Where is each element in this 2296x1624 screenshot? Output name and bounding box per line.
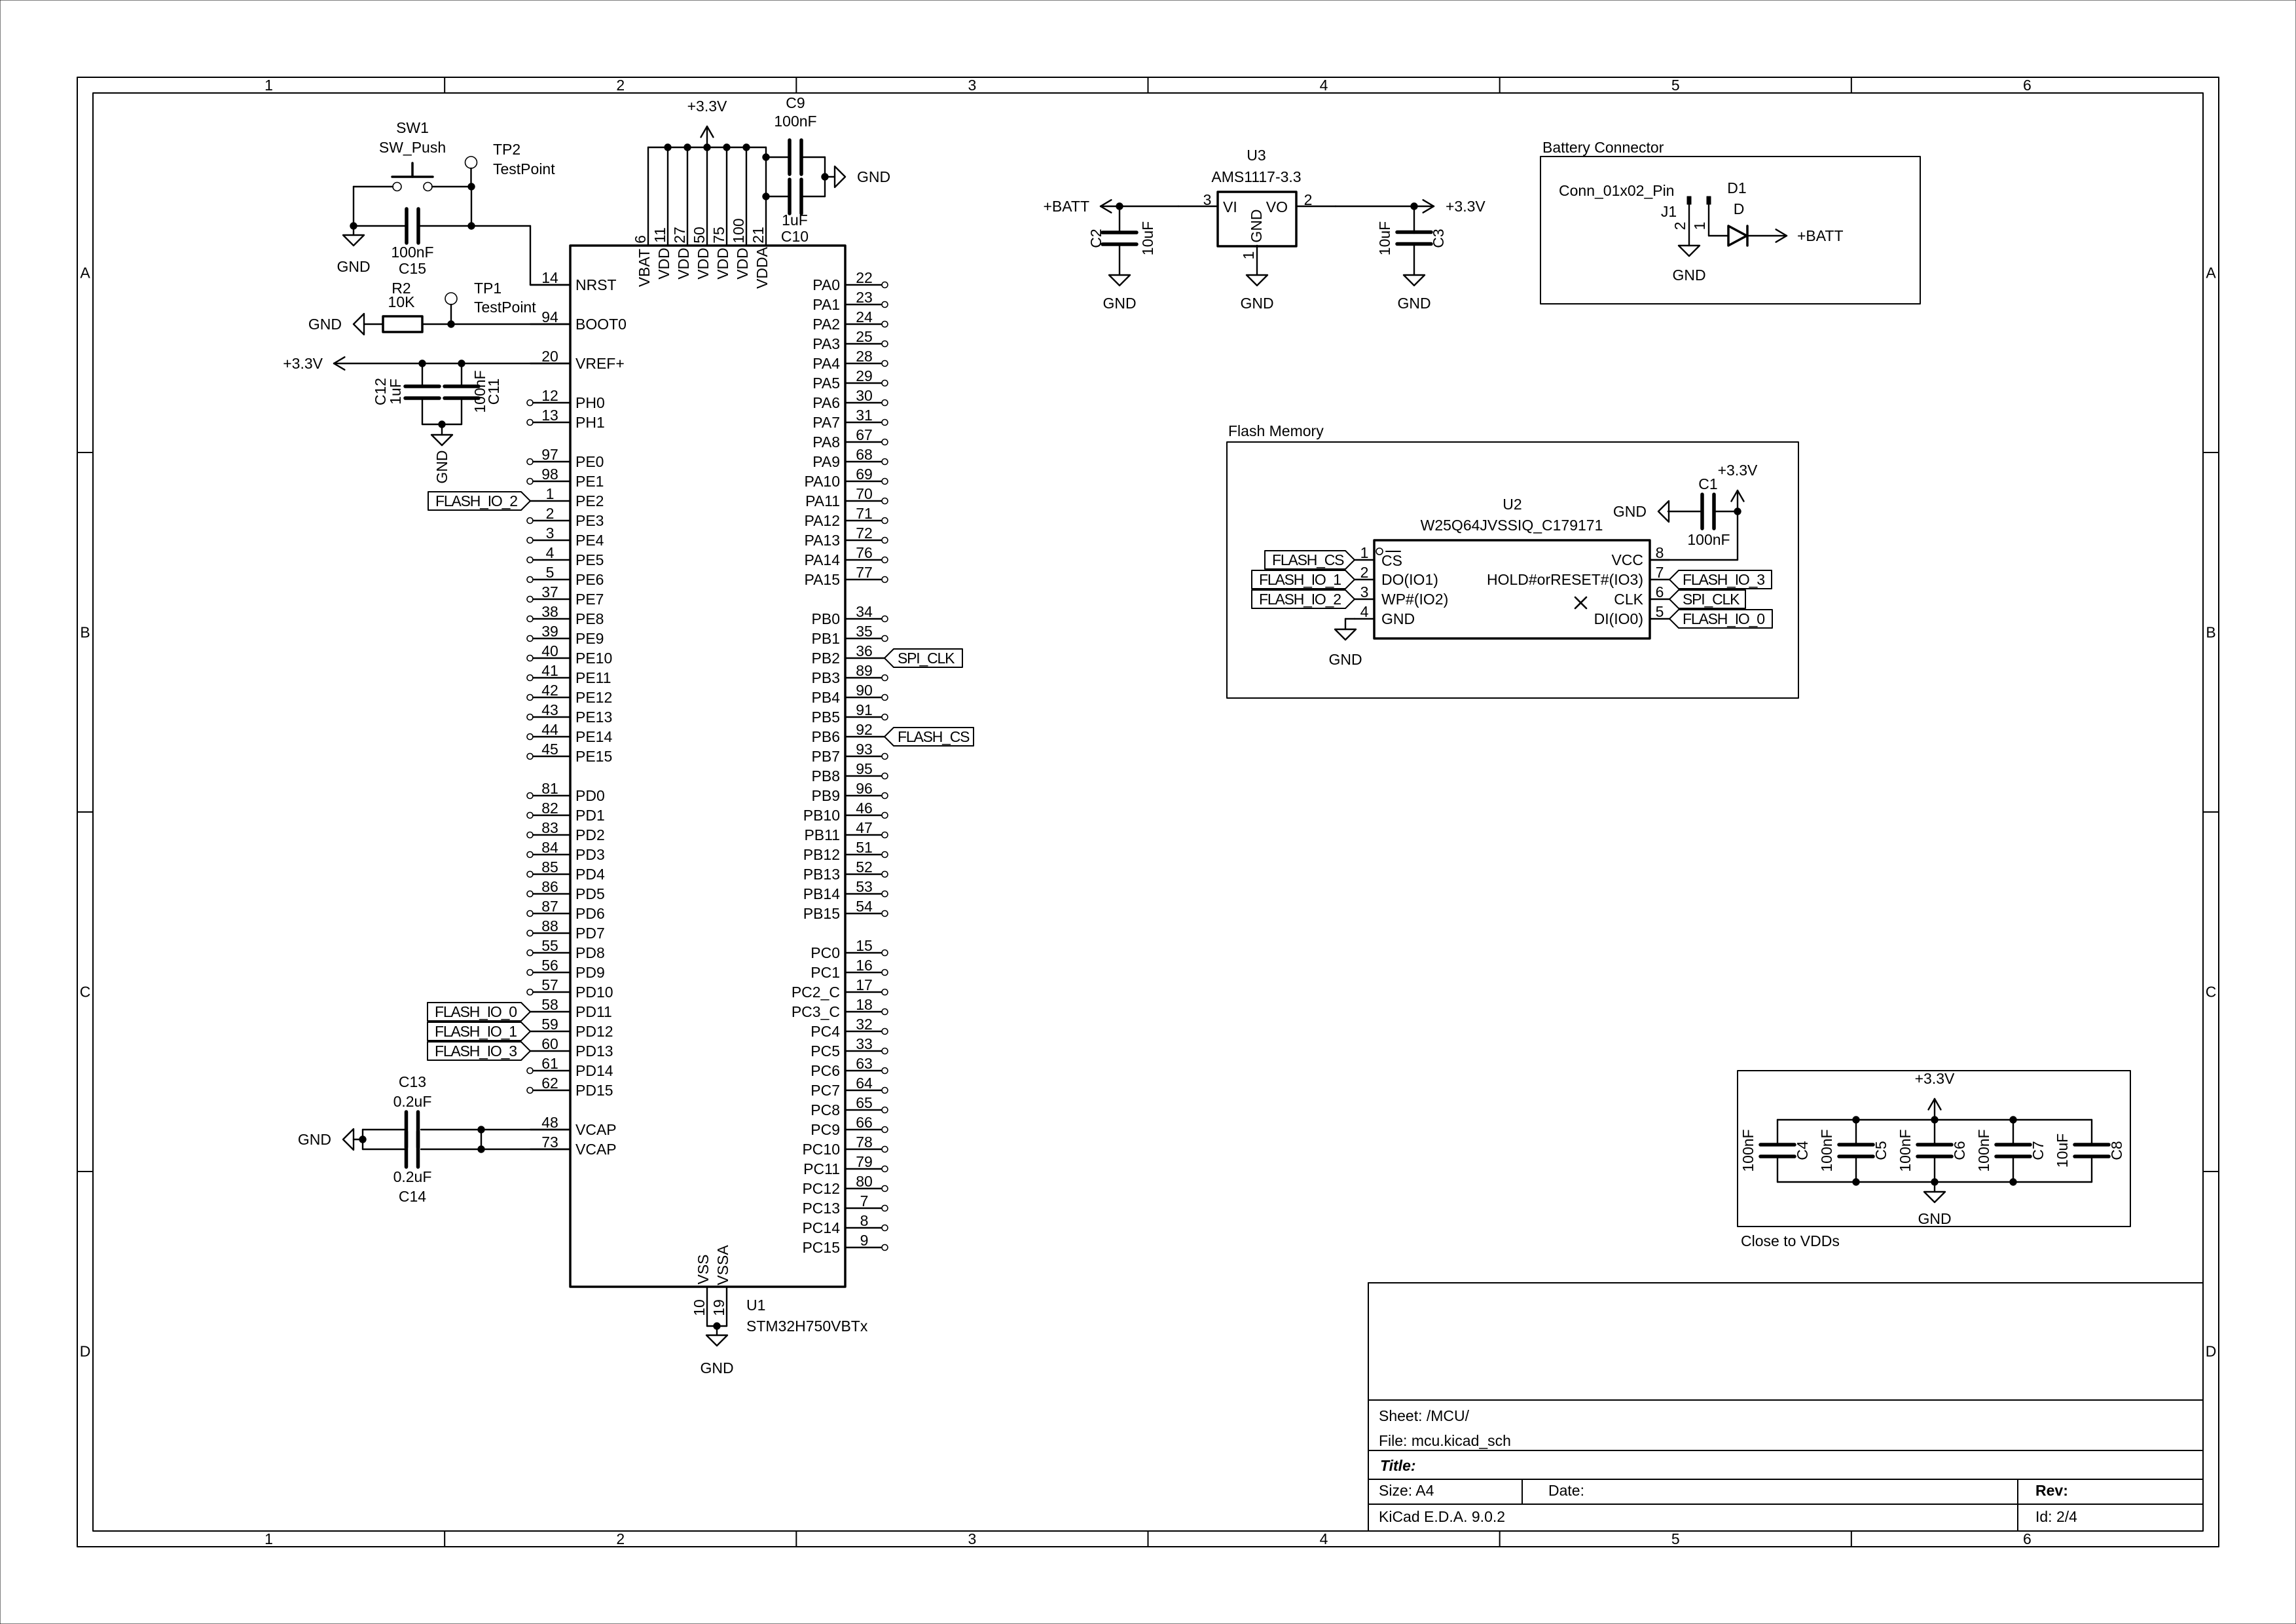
svg-text:PA3: PA3 xyxy=(812,335,840,352)
svg-text:PA7: PA7 xyxy=(812,414,840,431)
ground xyxy=(1679,246,1700,256)
U1 pin 3 PE4 xyxy=(533,540,570,541)
hierarchical label FLASH_CS xyxy=(884,728,974,746)
wire VSS/VSSA join xyxy=(707,1325,727,1327)
svg-text:12: 12 xyxy=(541,387,558,404)
svg-text:90: 90 xyxy=(856,682,873,699)
resistor R2 10K xyxy=(383,316,422,332)
svg-text:1: 1 xyxy=(546,485,555,502)
U1 pin 63 PC6 xyxy=(845,1070,881,1071)
power +3.3V (VREF) xyxy=(334,363,570,364)
svg-text:+BATT: +BATT xyxy=(1043,198,1089,215)
U2 pin 7 HOLD xyxy=(1650,579,1669,580)
svg-text:68: 68 xyxy=(856,446,873,463)
capacitor C15 xyxy=(405,209,409,243)
U1 pin 95 PB8 xyxy=(845,775,881,777)
svg-text:3: 3 xyxy=(968,1530,977,1547)
svg-text:GND: GND xyxy=(337,258,370,275)
hierarchical label FLASH_IO_2 xyxy=(1252,590,1355,608)
svg-text:Flash Memory: Flash Memory xyxy=(1228,422,1324,439)
svg-text:VO: VO xyxy=(1266,198,1288,215)
capacitor C7 xyxy=(1996,1143,2030,1147)
svg-text:1: 1 xyxy=(264,1530,273,1547)
svg-text:4: 4 xyxy=(1320,77,1328,94)
U1 pin 39 PE9 xyxy=(533,638,570,639)
svg-text:69: 69 xyxy=(856,466,873,483)
U1 pin 17 PC2_C xyxy=(845,991,881,993)
U1 pin 83 PD2 xyxy=(533,834,570,836)
capacitor C1 xyxy=(1700,494,1704,528)
U1 pin 27 VDD xyxy=(687,147,688,246)
svg-text:8: 8 xyxy=(1656,544,1664,561)
svg-text:TP1: TP1 xyxy=(474,280,501,297)
svg-text:93: 93 xyxy=(856,741,873,758)
diode D1 xyxy=(1728,226,1747,246)
U1 pin 72 PA13 xyxy=(845,540,881,541)
svg-text:PB8: PB8 xyxy=(812,767,840,784)
svg-text:38: 38 xyxy=(541,603,558,620)
VDD cap rails xyxy=(1777,1119,2092,1120)
svg-text:SPI_CLK: SPI_CLK xyxy=(1683,591,1740,608)
svg-text:+3.3V: +3.3V xyxy=(1446,198,1485,215)
svg-text:PB15: PB15 xyxy=(803,905,840,922)
svg-text:2: 2 xyxy=(616,77,625,94)
svg-text:2: 2 xyxy=(546,505,555,522)
ground xyxy=(1658,501,1669,522)
ground xyxy=(441,424,443,435)
svg-text:PA15: PA15 xyxy=(804,571,840,588)
capacitor C11 xyxy=(445,384,479,388)
capacitor C8 xyxy=(2075,1143,2109,1147)
svg-text:46: 46 xyxy=(856,800,873,817)
svg-text:PB10: PB10 xyxy=(803,807,840,824)
title block xyxy=(1368,1282,2202,1283)
svg-text:B: B xyxy=(2206,624,2215,641)
svg-text:58: 58 xyxy=(541,996,558,1013)
svg-text:97: 97 xyxy=(541,446,558,463)
hierarchical label SPI_CLK xyxy=(884,649,962,667)
svg-text:60: 60 xyxy=(541,1035,558,1052)
svg-text:66: 66 xyxy=(856,1114,873,1131)
svg-text:15: 15 xyxy=(856,937,873,954)
U1 pin 66 PC9 xyxy=(845,1129,881,1130)
svg-text:14: 14 xyxy=(541,269,558,286)
svg-text:PA8: PA8 xyxy=(812,434,840,451)
svg-text:C3: C3 xyxy=(1430,229,1447,248)
svg-text:SW_Push: SW_Push xyxy=(379,139,446,156)
svg-text:PD10: PD10 xyxy=(575,984,613,1001)
U1 pin 48 VCAP xyxy=(530,1129,570,1130)
svg-text:+3.3V: +3.3V xyxy=(1718,462,1758,479)
svg-text:SPI_CLK: SPI_CLK xyxy=(898,650,955,667)
svg-text:GND: GND xyxy=(700,1359,733,1376)
svg-text:FLASH_IO_3: FLASH_IO_3 xyxy=(435,1043,517,1060)
U1 pin 59 PD12 xyxy=(530,1031,570,1032)
svg-text:GND: GND xyxy=(433,450,450,483)
svg-text:FLASH_IO_0: FLASH_IO_0 xyxy=(435,1003,517,1020)
wire VCAP 48 xyxy=(421,1129,570,1130)
svg-text:SW1: SW1 xyxy=(396,119,429,136)
svg-text:VDD: VDD xyxy=(695,248,712,280)
capacitor C14 xyxy=(405,1132,409,1167)
svg-text:53: 53 xyxy=(856,878,873,895)
U1 pin 44 PE14 xyxy=(533,736,570,737)
U1 pin 97 PE0 xyxy=(533,461,570,462)
svg-text:PH0: PH0 xyxy=(575,394,605,411)
svg-text:PC6: PC6 xyxy=(811,1062,840,1079)
U1 pin 56 PD9 xyxy=(533,972,570,973)
svg-text:A: A xyxy=(2206,265,2216,282)
svg-text:Close to VDDs: Close to VDDs xyxy=(1741,1232,1840,1249)
svg-text:VI: VI xyxy=(1223,198,1237,215)
svg-text:47: 47 xyxy=(856,819,873,836)
U1 pin 79 PC11 xyxy=(845,1168,881,1170)
hierarchical label SPI_CLK xyxy=(1669,590,1745,608)
svg-text:73: 73 xyxy=(541,1134,558,1151)
capacitor C12 xyxy=(405,384,439,388)
svg-text:VDD: VDD xyxy=(675,248,692,280)
svg-text:PA1: PA1 xyxy=(812,296,840,313)
svg-text:PH1: PH1 xyxy=(575,414,605,431)
U1 pin 58 PD11 xyxy=(530,1011,570,1012)
svg-text:29: 29 xyxy=(856,367,873,384)
svg-text:100nF: 100nF xyxy=(391,244,433,261)
ground xyxy=(1404,275,1425,286)
svg-text:2: 2 xyxy=(1360,564,1369,581)
svg-text:65: 65 xyxy=(856,1094,873,1111)
wire TP2 to C15 xyxy=(471,187,472,226)
svg-text:Title:: Title: xyxy=(1380,1457,1416,1474)
svg-text:100nF: 100nF xyxy=(1740,1129,1757,1172)
svg-text:WP#(IO2): WP#(IO2) xyxy=(1381,591,1448,608)
svg-text:D: D xyxy=(80,1343,91,1360)
svg-text:33: 33 xyxy=(856,1035,873,1052)
svg-text:BOOT0: BOOT0 xyxy=(575,316,627,333)
svg-text:40: 40 xyxy=(541,642,558,659)
svg-text:PC12: PC12 xyxy=(802,1180,840,1197)
svg-text:PC2_C: PC2_C xyxy=(792,984,840,1001)
svg-text:U1: U1 xyxy=(746,1297,765,1314)
svg-text:54: 54 xyxy=(856,898,873,915)
svg-text:PB14: PB14 xyxy=(803,885,840,902)
U1 pin 98 PE1 xyxy=(533,481,570,482)
svg-text:C14: C14 xyxy=(399,1188,426,1205)
svg-text:PC11: PC11 xyxy=(803,1160,840,1177)
capacitor C9 xyxy=(788,140,792,174)
svg-text:8: 8 xyxy=(860,1212,869,1229)
svg-text:File: mcu.kicad_sch: File: mcu.kicad_sch xyxy=(1379,1432,1511,1449)
svg-text:100: 100 xyxy=(730,218,747,243)
U1 pin 42 PE12 xyxy=(533,697,570,698)
svg-text:82: 82 xyxy=(541,800,558,817)
svg-text:PD3: PD3 xyxy=(575,846,605,863)
U1 pin 24 PA2 xyxy=(845,323,881,325)
svg-text:13: 13 xyxy=(541,407,558,424)
svg-text:PD4: PD4 xyxy=(575,866,605,883)
svg-text:PB2: PB2 xyxy=(812,650,840,667)
svg-text:D: D xyxy=(2206,1343,2217,1360)
svg-text:PA4: PA4 xyxy=(812,355,840,372)
svg-text:PD14: PD14 xyxy=(575,1062,613,1079)
U2 pin 1 CS xyxy=(1355,559,1374,561)
svg-text:63: 63 xyxy=(856,1055,873,1072)
svg-text:PE3: PE3 xyxy=(575,512,604,529)
svg-text:10uF: 10uF xyxy=(2054,1134,2071,1168)
svg-text:43: 43 xyxy=(541,701,558,718)
svg-text:28: 28 xyxy=(856,348,873,365)
U1 pin 73 VCAP xyxy=(530,1149,570,1150)
U1 pin 31 PA7 xyxy=(845,422,881,423)
svg-text:61: 61 xyxy=(541,1055,558,1072)
svg-text:PA5: PA5 xyxy=(812,375,840,392)
svg-text:PD13: PD13 xyxy=(575,1043,613,1060)
svg-text:GND: GND xyxy=(1381,610,1415,627)
svg-text:77: 77 xyxy=(856,564,873,581)
svg-text:GND: GND xyxy=(308,316,342,333)
svg-text:VBAT: VBAT xyxy=(636,249,653,287)
U1 pin 35 PB1 xyxy=(845,638,881,639)
svg-text:PE12: PE12 xyxy=(575,689,612,706)
svg-text:Size: A4: Size: A4 xyxy=(1379,1482,1434,1499)
svg-text:PE14: PE14 xyxy=(575,728,612,745)
U1 pin 81 PD0 xyxy=(533,795,570,796)
U2 pin 2 DO xyxy=(1355,579,1374,580)
U1 pin 21 VDDA xyxy=(765,147,767,246)
svg-text:80: 80 xyxy=(856,1173,873,1190)
U1 pin 32 PC4 xyxy=(845,1031,881,1032)
svg-text:100nF: 100nF xyxy=(1687,531,1730,548)
svg-text:TestPoint: TestPoint xyxy=(474,299,536,316)
wire J1 to D1 xyxy=(1709,235,1728,236)
svg-text:1uF: 1uF xyxy=(782,212,808,229)
svg-text:86: 86 xyxy=(541,878,558,895)
U1 pin 82 PD1 xyxy=(533,815,570,816)
svg-text:PA9: PA9 xyxy=(812,453,840,470)
svg-text:0.2uF: 0.2uF xyxy=(393,1093,432,1110)
svg-text:89: 89 xyxy=(856,662,873,679)
U1 pin 43 PE13 xyxy=(533,716,570,718)
ground xyxy=(354,314,364,335)
svg-text:4: 4 xyxy=(546,544,555,561)
MCU U1 STM32H750VBTx body xyxy=(570,246,845,1287)
svg-text:2: 2 xyxy=(616,1530,625,1547)
svg-text:20: 20 xyxy=(541,348,558,365)
svg-text:C6: C6 xyxy=(1951,1141,1968,1160)
U1 pin 12 PH0 xyxy=(533,402,570,403)
U2 pin 3 WP xyxy=(1355,599,1374,600)
svg-text:6: 6 xyxy=(1656,583,1664,600)
svg-text:PC14: PC14 xyxy=(802,1219,840,1236)
svg-text:PD9: PD9 xyxy=(575,964,605,981)
svg-text:D: D xyxy=(1734,200,1745,217)
svg-text:PB1: PB1 xyxy=(812,630,840,647)
svg-text:1: 1 xyxy=(1360,544,1369,561)
svg-text:7: 7 xyxy=(860,1192,869,1209)
svg-text:J1: J1 xyxy=(1661,203,1677,220)
U3 pin 2 VO xyxy=(1296,206,1336,207)
svg-text:+3.3V: +3.3V xyxy=(1915,1070,1955,1087)
svg-text:GND: GND xyxy=(1328,651,1362,668)
wire C13/C14 left join xyxy=(363,1129,405,1130)
wire SW1 left xyxy=(354,186,393,187)
svg-text:84: 84 xyxy=(541,839,558,856)
U1 pin 91 PB5 xyxy=(845,716,881,718)
svg-text:87: 87 xyxy=(541,898,558,915)
svg-text:PD5: PD5 xyxy=(575,885,605,902)
hierarchical label FLASH_IO_3 xyxy=(428,1042,530,1060)
U1 pin 54 PB15 xyxy=(845,913,881,914)
U1 pin 78 PC10 xyxy=(845,1149,881,1150)
U1 pin 20 VREF+ xyxy=(530,363,570,364)
svg-text:TestPoint: TestPoint xyxy=(493,160,555,177)
svg-text:76: 76 xyxy=(856,544,873,561)
svg-text:VDDA: VDDA xyxy=(754,246,771,289)
flash U2 W25Q64JVSSIQ body xyxy=(1374,540,1650,638)
svg-text:Sheet: /MCU/: Sheet: /MCU/ xyxy=(1379,1407,1470,1424)
svg-text:FLASH_IO_2: FLASH_IO_2 xyxy=(435,492,517,509)
wire VCAP link xyxy=(481,1130,482,1149)
svg-text:83: 83 xyxy=(541,819,558,836)
svg-text:57: 57 xyxy=(541,976,558,993)
wire SW1 right xyxy=(432,186,471,187)
svg-text:44: 44 xyxy=(541,721,558,738)
U1 pin 53 PB14 xyxy=(845,893,881,895)
svg-text:88: 88 xyxy=(541,917,558,934)
U1 pin 8 PC14 xyxy=(845,1227,881,1228)
group box Flash Memory xyxy=(1227,442,1798,698)
svg-text:C5: C5 xyxy=(1872,1141,1889,1160)
regulator U3 AMS1117-3.3 xyxy=(1218,192,1296,246)
ground xyxy=(1335,629,1356,640)
svg-text:PA0: PA0 xyxy=(812,276,840,293)
svg-text:36: 36 xyxy=(856,642,873,659)
svg-text:U2: U2 xyxy=(1503,496,1522,513)
ground xyxy=(343,1129,354,1150)
wire GND to R2 xyxy=(364,323,383,325)
switch SW1 SW_Push xyxy=(393,183,401,191)
svg-text:PB12: PB12 xyxy=(803,846,840,863)
svg-text:GND: GND xyxy=(1240,295,1273,312)
svg-text:34: 34 xyxy=(856,603,873,620)
U1 pin 75 VDD xyxy=(726,147,727,246)
svg-text:GND: GND xyxy=(298,1131,331,1148)
ground xyxy=(706,1335,727,1346)
svg-text:PC7: PC7 xyxy=(811,1082,840,1099)
svg-text:DI(IO0): DI(IO0) xyxy=(1594,610,1643,627)
svg-text:Rev:: Rev: xyxy=(2035,1482,2068,1499)
U1 pin 34 PB0 xyxy=(845,618,881,619)
svg-text:7: 7 xyxy=(1656,564,1664,581)
svg-text:FLASH_IO_1: FLASH_IO_1 xyxy=(1259,571,1341,588)
wire C9/C10 right join xyxy=(824,157,826,196)
svg-text:1uF: 1uF xyxy=(387,378,404,405)
capacitor C4 xyxy=(1760,1143,1795,1147)
svg-text:11: 11 xyxy=(651,227,668,243)
svg-text:U3: U3 xyxy=(1247,147,1266,164)
U1 pin 93 PB7 xyxy=(845,756,881,757)
svg-text:DO(IO1): DO(IO1) xyxy=(1381,571,1438,588)
U1 pin 55 PD8 xyxy=(533,952,570,953)
svg-text:VREF+: VREF+ xyxy=(575,355,625,372)
svg-text:PE4: PE4 xyxy=(575,532,604,549)
U1 pin 88 PD7 xyxy=(533,932,570,934)
svg-text:KiCad E.D.A. 9.0.2: KiCad E.D.A. 9.0.2 xyxy=(1379,1508,1505,1525)
U1 pin 36 PB2 xyxy=(845,657,884,659)
U1 pin 71 PA12 xyxy=(845,520,881,521)
U1 pin 85 PD4 xyxy=(533,874,570,875)
svg-text:42: 42 xyxy=(541,682,558,699)
svg-text:70: 70 xyxy=(856,485,873,502)
svg-text:NRST: NRST xyxy=(575,276,617,293)
svg-text:4: 4 xyxy=(1360,603,1369,620)
U1 pin 60 PD13 xyxy=(530,1050,570,1052)
svg-text:CLK: CLK xyxy=(1614,591,1643,608)
svg-text:CS: CS xyxy=(1381,552,1402,569)
U2 pin 5 DI xyxy=(1650,618,1669,619)
wire VCC to C1 xyxy=(1650,559,1738,561)
svg-text:PB5: PB5 xyxy=(812,709,840,726)
svg-text:TP2: TP2 xyxy=(493,141,520,158)
svg-text:PB11: PB11 xyxy=(804,826,840,843)
hierarchical label FLASH_CS xyxy=(1265,551,1355,569)
svg-text:D1: D1 xyxy=(1727,179,1746,196)
svg-text:PC4: PC4 xyxy=(811,1023,840,1040)
U1 pin 29 PA5 xyxy=(845,382,881,384)
U1 pin 46 PB10 xyxy=(845,815,881,816)
svg-text:+3.3V: +3.3V xyxy=(687,98,727,115)
svg-text:17: 17 xyxy=(856,976,873,993)
power +BATT (diode out) xyxy=(1747,235,1787,236)
svg-text:FLASH_CS: FLASH_CS xyxy=(1272,551,1344,568)
U1 pin 77 PA15 xyxy=(845,579,881,580)
svg-text:FLASH_IO_1: FLASH_IO_1 xyxy=(435,1023,517,1040)
ground xyxy=(343,235,364,246)
svg-text:5: 5 xyxy=(1656,603,1664,620)
U1 pin 47 PB11 xyxy=(845,834,881,836)
svg-text:PE9: PE9 xyxy=(575,630,604,647)
svg-text:PD0: PD0 xyxy=(575,787,605,804)
svg-text:C13: C13 xyxy=(399,1073,426,1090)
U1 pin 67 PA8 xyxy=(845,441,881,443)
svg-text:VCAP: VCAP xyxy=(575,1141,617,1158)
hierarchical label FLASH_IO_2 xyxy=(428,492,530,510)
svg-text:19: 19 xyxy=(710,1299,727,1316)
svg-text:Battery Connector: Battery Connector xyxy=(1542,139,1664,156)
svg-text:PA12: PA12 xyxy=(804,512,840,529)
svg-text:96: 96 xyxy=(856,780,873,797)
J1 pin 2 xyxy=(1687,196,1691,204)
svg-text:64: 64 xyxy=(856,1075,873,1092)
svg-text:PB13: PB13 xyxy=(803,866,840,883)
U1 pin 10 VSS xyxy=(706,1287,708,1326)
U2 pin 6 CLK xyxy=(1650,599,1669,600)
svg-text:25: 25 xyxy=(856,328,873,345)
group box Close to VDDs xyxy=(1738,1071,2130,1227)
U2 pin 4 GND xyxy=(1355,618,1374,619)
svg-text:100nF: 100nF xyxy=(774,113,816,130)
svg-text:59: 59 xyxy=(541,1016,558,1033)
svg-text:21: 21 xyxy=(750,227,767,244)
svg-text:95: 95 xyxy=(856,760,873,777)
U1 pin 64 PC7 xyxy=(845,1090,881,1091)
U1 pin 19 VSSA xyxy=(726,1287,727,1326)
svg-text:PB6: PB6 xyxy=(812,728,840,745)
hierarchical label FLASH_IO_0 xyxy=(1669,610,1772,628)
svg-text:C8: C8 xyxy=(2108,1141,2125,1160)
svg-text:PE2: PE2 xyxy=(575,492,604,509)
svg-text:32: 32 xyxy=(856,1016,873,1033)
svg-text:VDD: VDD xyxy=(734,248,751,280)
